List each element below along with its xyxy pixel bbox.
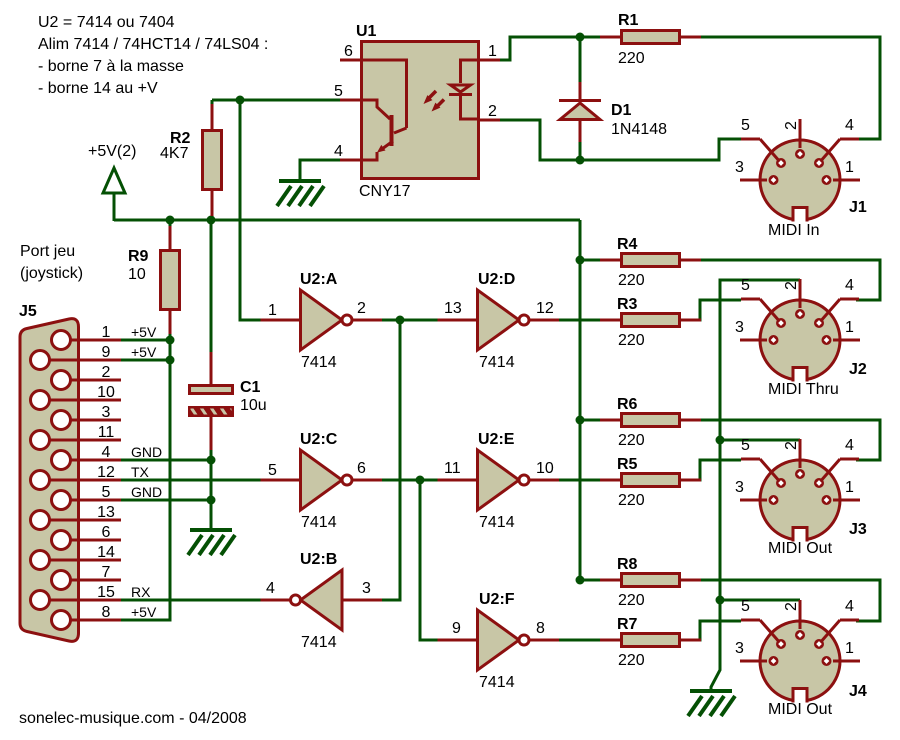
inverter U2:C value 7414 (301, 514, 337, 531)
connector J3 labels (735, 437, 867, 557)
svg-text:6: 6 (344, 43, 353, 60)
svg-text:4: 4 (845, 277, 854, 294)
svg-text:7414: 7414 (301, 514, 337, 531)
junction bus to R8 (576, 576, 585, 585)
resistor R3 body (622, 314, 680, 327)
note text line 1 (38, 14, 175, 31)
capacitor C1 bottom plate (188, 403, 240, 421)
svg-text:7414: 7414 (479, 354, 515, 371)
svg-text:1: 1 (102, 324, 111, 341)
junction C1/GND pin4 (207, 456, 216, 465)
svg-text:14: 14 (97, 544, 115, 561)
transistor inside U1 collector path (361, 100, 390, 119)
inverter U2:A label (300, 271, 338, 288)
wire R6 to J3 pin4 (701, 420, 880, 460)
inverter U2:C label (300, 431, 338, 448)
svg-text:7: 7 (102, 564, 111, 581)
wire J3 pin2 to chain (720, 439, 800, 442)
svg-text:5: 5 (268, 462, 277, 479)
svg-text:+5V: +5V (131, 344, 157, 360)
op-amp U1 body box (362, 42, 479, 179)
svg-text:J2: J2 (849, 361, 867, 378)
resistor R4 leads (600, 259, 701, 262)
svg-text:CNY17: CNY17 (359, 183, 411, 200)
svg-text:220: 220 (618, 332, 645, 349)
svg-text:4: 4 (845, 598, 854, 615)
svg-text:1: 1 (845, 640, 854, 657)
svg-text:1N4148: 1N4148 (611, 121, 667, 138)
inverter U2:D pin numbers (444, 300, 554, 317)
connector J2 labels (735, 277, 867, 398)
resistor R8 leads (600, 579, 701, 582)
svg-text:13: 13 (97, 504, 115, 521)
svg-text:2: 2 (783, 121, 800, 130)
wire R9 column (169, 220, 172, 340)
capacitor C1 top plate (190, 386, 233, 394)
svg-text:MIDI In: MIDI In (768, 222, 820, 239)
svg-text:(joystick): (joystick) (20, 265, 83, 282)
svg-text:10: 10 (128, 266, 146, 283)
svg-text:7414: 7414 (301, 354, 337, 371)
svg-text:1: 1 (845, 159, 854, 176)
svg-text:5: 5 (334, 83, 343, 100)
resistor R9 leads (169, 226, 172, 334)
svg-text:7414: 7414 (479, 514, 515, 531)
capacitor C1 top lead (210, 352, 213, 386)
resistor R3 value 220 (618, 332, 645, 349)
junction chain J4 pin2 (716, 596, 725, 605)
inverter U2:A (261, 290, 383, 350)
svg-text:+5V: +5V (131, 324, 157, 340)
svg-text:U2:F: U2:F (479, 591, 515, 608)
junction +5V pin1 (166, 336, 175, 345)
svg-text:sonelec-musique.com - 04/2008: sonelec-musique.com - 04/2008 (19, 710, 247, 727)
wire U1 pin1 to R1 node (500, 37, 600, 60)
svg-text:+5V: +5V (131, 604, 157, 620)
svg-text:2: 2 (783, 281, 800, 290)
resistor R7 label (617, 616, 638, 633)
svg-text:R4: R4 (617, 236, 638, 253)
junction bus to R6 (576, 416, 585, 425)
svg-text:J4: J4 (849, 683, 867, 700)
svg-text:U2:A: U2:A (300, 271, 338, 288)
inverter U2:B label (300, 551, 337, 568)
connector J5 body (20, 319, 79, 642)
svg-text:MIDI Thru: MIDI Thru (768, 381, 839, 398)
svg-text:1: 1 (268, 302, 277, 319)
svg-text:U1: U1 (356, 23, 377, 40)
svg-text:9: 9 (102, 344, 111, 361)
connector J5 holes (31, 331, 71, 630)
wire R5 to J3 pin5 (681, 460, 741, 480)
light arrows inside U1 (424, 91, 445, 112)
svg-text:7414: 7414 (301, 634, 337, 651)
svg-text:GND: GND (131, 484, 162, 500)
wire +5V bus horizontal (114, 219, 580, 222)
svg-text:- borne 14 au +V: - borne 14 au +V (38, 80, 158, 97)
svg-text:8: 8 (536, 620, 545, 637)
svg-text:R1: R1 (618, 12, 639, 29)
resistor R3 label (617, 296, 638, 313)
junction bus to R4 (576, 256, 585, 265)
ground near J4 (688, 691, 735, 716)
op-amp U1 pin stubs (340, 60, 500, 160)
resistor R6 leads (600, 419, 701, 422)
wire R2 body column (211, 100, 214, 220)
op-amp U1 value CNY17 (359, 183, 411, 200)
resistor R4 body (622, 254, 680, 267)
svg-text:220: 220 (618, 272, 645, 289)
svg-text:Alim 7414 / 74HCT14 / 74LS04 :: Alim 7414 / 74HCT14 / 74LS04 : (38, 36, 268, 53)
diode D1 body (560, 103, 600, 120)
resistor R5 body (622, 474, 680, 487)
svg-text:5: 5 (741, 117, 750, 134)
wire +5V arrow stem (113, 191, 116, 221)
svg-text:3: 3 (735, 479, 744, 496)
wire node A down to U2:B input (382, 320, 400, 600)
wire U2:D output to R3 (546, 319, 600, 322)
svg-text:Port jeu: Port jeu (20, 243, 75, 260)
svg-text:GND: GND (131, 444, 162, 460)
svg-text:1: 1 (488, 43, 497, 60)
svg-text:RX: RX (131, 584, 151, 600)
svg-text:TX: TX (131, 464, 150, 480)
svg-text:220: 220 (618, 432, 645, 449)
connector J5 net labels (131, 324, 162, 620)
ground below C1 (188, 530, 235, 555)
svg-text:4: 4 (102, 444, 111, 461)
svg-text:8: 8 (102, 604, 111, 621)
connector J1 (MIDI In) (740, 119, 860, 223)
inverter U2:D value 7414 (479, 354, 515, 371)
wire R7 to J4 pin5 (681, 621, 741, 640)
junction node D1/U1 pin2 (576, 156, 585, 165)
resistor R2 value 4K7 (160, 145, 189, 162)
wire U2:A output to U2:D input (381, 319, 438, 322)
note text line 4 (38, 80, 158, 97)
svg-text:R7: R7 (617, 616, 638, 633)
wire U1 pin2 to D1 bottom to J1 pin5 (500, 120, 741, 160)
diode D1 cathode bar (559, 99, 601, 102)
port name text (20, 243, 83, 282)
wire J5 pin1 +5V (120, 339, 170, 342)
resistor R6 value 220 (618, 432, 645, 449)
svg-text:4K7: 4K7 (160, 145, 189, 162)
wire J5 pin15 RX to U2:B output (120, 599, 261, 602)
inverter U2:B (mirrored) (261, 570, 383, 630)
inverter U2:F (438, 610, 560, 670)
inverter U2:E pin numbers (444, 460, 554, 477)
resistor R1 body (622, 31, 680, 44)
inverter U2:A pin numbers (268, 300, 366, 319)
resistor R8 body (622, 574, 680, 587)
svg-text:1: 1 (845, 319, 854, 336)
svg-text:12: 12 (97, 464, 115, 481)
inverter U2:A value 7414 (301, 354, 337, 371)
inverter U2:D label (478, 271, 515, 288)
svg-text:2: 2 (357, 300, 366, 317)
svg-text:12: 12 (536, 300, 554, 317)
junction node A (U2:A out) (396, 316, 405, 325)
connector J3 (MIDI Out) (740, 439, 860, 543)
inverter U2:D (438, 290, 560, 350)
inverter U2:E (438, 450, 560, 510)
resistor R5 leads (600, 479, 701, 482)
svg-text:3: 3 (735, 640, 744, 657)
wire J4 pin2 to chain (720, 599, 800, 602)
wire U2:F output to R7 (546, 639, 600, 642)
wire J5 +5V vertical (120, 340, 170, 620)
svg-text:6: 6 (102, 524, 111, 541)
note text line 3 (38, 58, 184, 75)
ground near U1 pin4 (277, 181, 324, 206)
svg-text:MIDI Out: MIDI Out (768, 540, 833, 557)
junction node opto collector (236, 96, 245, 105)
svg-text:15: 15 (97, 584, 115, 601)
connector J5 pin numbers (97, 324, 115, 621)
inverter U2:B value 7414 (301, 634, 337, 651)
resistor R5 label (617, 456, 638, 473)
svg-text:10u: 10u (240, 397, 267, 414)
svg-text:2: 2 (783, 441, 800, 450)
transistor inside U1 base bar (390, 115, 394, 146)
op-amp U1 pin numbers (334, 43, 497, 160)
wire R1 to J1 pin4 (701, 37, 880, 139)
connector J4 (MIDI Out) (740, 600, 860, 704)
resistor R4 value 220 (618, 272, 645, 289)
inverter U2:E label (478, 431, 515, 448)
resistor R8 label (617, 556, 638, 573)
diode D1 value 1N4148 (611, 121, 667, 138)
resistor R9 label (128, 248, 149, 265)
transistor inside U1 base path (361, 60, 407, 133)
capacitor C1 label (240, 379, 261, 396)
resistor R1 value 220 (618, 50, 645, 67)
power +5V(2) label (88, 143, 136, 160)
inverter U2:F value 7414 (479, 674, 515, 691)
svg-text:R9: R9 (128, 248, 149, 265)
svg-text:11: 11 (444, 460, 461, 477)
inverter U2:C pin numbers (268, 460, 366, 479)
svg-text:D1: D1 (611, 102, 632, 119)
wire bus to R6 (580, 419, 600, 422)
capacitor C1 bottom lead (210, 415, 213, 450)
wire R3 to J2 pin5 (681, 300, 741, 320)
svg-text:U2:B: U2:B (300, 551, 337, 568)
wire R4 to J2 pin4 (701, 260, 880, 300)
junction R2/C1 on +5V bus (207, 216, 216, 225)
svg-text:J1: J1 (849, 199, 867, 216)
resistor R1 leads (600, 36, 701, 39)
svg-text:3: 3 (102, 404, 111, 421)
svg-text:U2:E: U2:E (478, 431, 515, 448)
resistor R7 value 220 (618, 652, 645, 669)
wire bus to R8 (580, 579, 600, 582)
svg-text:3: 3 (735, 159, 744, 176)
connector J5 pin leads (40, 340, 121, 620)
connector J4 labels (735, 598, 867, 718)
svg-text:5: 5 (741, 277, 750, 294)
wire D1 top (579, 39, 582, 82)
inverter U2:F pin numbers (452, 620, 545, 637)
svg-text:2: 2 (488, 103, 497, 120)
svg-text:10: 10 (97, 384, 115, 401)
junction node C (U2:C out) (416, 476, 425, 485)
svg-text:MIDI Out: MIDI Out (768, 701, 833, 718)
wire U1 pin5 to R2 top (212, 99, 340, 102)
svg-text:R5: R5 (617, 456, 638, 473)
svg-text:5: 5 (741, 598, 750, 615)
junction node R1/D1/U1 pin1 (576, 33, 585, 42)
inverter U2:F label (479, 591, 515, 608)
svg-text:R3: R3 (617, 296, 638, 313)
connector J2 (MIDI Thru) (740, 279, 860, 383)
diode D1 label (611, 102, 632, 119)
svg-text:2: 2 (102, 364, 111, 381)
wire C1 column bottom to ground (210, 417, 213, 528)
LED inside U1 (449, 60, 479, 119)
resistor R9 value 10 (128, 266, 146, 283)
svg-text:C1: C1 (240, 379, 261, 396)
wire D1 bottom (579, 140, 582, 161)
svg-text:220: 220 (618, 652, 645, 669)
diode D1 leads (579, 82, 582, 142)
svg-text:3: 3 (362, 580, 371, 597)
junction +5V pin9 (166, 356, 175, 365)
wire C1 column top (210, 220, 213, 384)
svg-text:2: 2 (783, 602, 800, 611)
resistor R1 label (618, 12, 639, 29)
svg-text:4: 4 (334, 143, 343, 160)
wire J5 pin12 TX to U2:C input (120, 479, 261, 482)
resistor R2 leads (211, 104, 214, 216)
svg-text:5: 5 (102, 484, 111, 501)
resistor R6 label (617, 396, 638, 413)
svg-text:U2:D: U2:D (478, 271, 515, 288)
svg-text:10: 10 (536, 460, 554, 477)
resistor R5 value 220 (618, 492, 645, 509)
svg-text:6: 6 (357, 460, 366, 477)
svg-text:7414: 7414 (479, 674, 515, 691)
connector J5 label (19, 303, 37, 320)
svg-text:220: 220 (618, 592, 645, 609)
wire J5 pin5 GND (120, 499, 211, 502)
svg-text:U2:C: U2:C (300, 431, 338, 448)
svg-text:R8: R8 (617, 556, 638, 573)
wire J2 pin2 shield chain (711, 280, 800, 689)
svg-text:3: 3 (735, 319, 744, 336)
resistor R2 label (170, 130, 191, 147)
resistor R9 body (161, 251, 180, 310)
svg-text:220: 220 (618, 492, 645, 509)
svg-text:U2 = 7414 ou 7404: U2 = 7414 ou 7404 (38, 14, 175, 31)
svg-text:4: 4 (266, 580, 275, 597)
resistor R7 body (622, 634, 680, 647)
note text line 2 (38, 36, 268, 53)
footer text (19, 710, 247, 727)
wire node pin5 down to U2:A input (240, 100, 261, 320)
svg-text:13: 13 (444, 300, 462, 317)
wire U1 pin4 to ground (300, 160, 340, 181)
junction chain J3 pin2 (716, 436, 725, 445)
resistor R2 body (203, 131, 222, 190)
resistor R4 label (617, 236, 638, 253)
wire U2:E output to R5 (546, 479, 600, 482)
svg-text:J5: J5 (19, 303, 37, 320)
svg-text:R6: R6 (617, 396, 638, 413)
svg-text:1: 1 (845, 479, 854, 496)
op-amp U1 label (356, 23, 377, 40)
resistor R8 value 220 (618, 592, 645, 609)
inverter U2:C (261, 450, 383, 510)
connector J1 labels (735, 117, 867, 239)
wire node C down to U2:F input (420, 480, 438, 640)
svg-text:220: 220 (618, 50, 645, 67)
svg-text:4: 4 (845, 117, 854, 134)
svg-text:J3: J3 (849, 521, 867, 538)
resistor R6 body (622, 414, 680, 427)
power +5V(2) arrow (103, 168, 125, 193)
svg-text:5: 5 (741, 437, 750, 454)
svg-text:4: 4 (845, 437, 854, 454)
resistor R3 leads (600, 319, 701, 322)
inverter U2:E value 7414 (479, 514, 515, 531)
wire R8 to J4 pin4 (701, 580, 880, 621)
wire J5 pin9 +5V (120, 359, 170, 362)
inverter U2:B pin numbers (266, 580, 371, 597)
junction R9 top on +5V bus (166, 216, 175, 225)
wire bus to R4 (580, 259, 600, 262)
capacitor C1 value 10u (240, 397, 267, 414)
wire U2:C output to U2:E input (381, 479, 438, 482)
wire J5 pin4 GND (120, 459, 211, 462)
svg-text:11: 11 (98, 424, 115, 441)
transistor inside U1 emitter (361, 141, 393, 160)
svg-text:+5V(2): +5V(2) (88, 143, 136, 160)
svg-text:9: 9 (452, 620, 461, 637)
junction C1/GND pin5 (207, 496, 216, 505)
svg-text:- borne 7 à la masse: - borne 7 à la masse (38, 58, 184, 75)
resistor R7 leads (600, 639, 701, 642)
wire +5V bus vertical (579, 220, 582, 580)
